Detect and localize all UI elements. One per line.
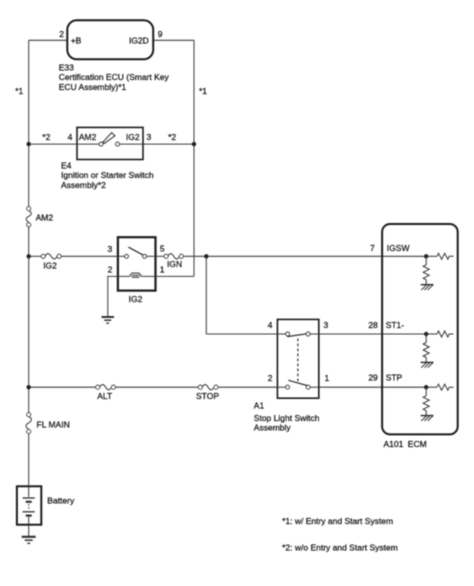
svg-text:*2: *2 [42,132,50,142]
svg-text:Certification ECU (Smart Key: Certification ECU (Smart Key [59,72,170,82]
svg-text:IG2: IG2 [43,261,57,271]
svg-text:STP: STP [386,373,403,383]
svg-text:AM2: AM2 [79,132,97,142]
svg-text:E4: E4 [61,160,72,170]
svg-text:IG2: IG2 [126,132,140,142]
svg-text:IG2: IG2 [129,294,143,304]
svg-text:IGN: IGN [167,259,182,269]
svg-text:FL MAIN: FL MAIN [37,419,70,429]
svg-text:2: 2 [59,29,64,39]
svg-text:*1: *1 [199,86,207,96]
svg-text:ALT: ALT [97,391,112,401]
svg-text:*1: *1 [15,86,23,96]
svg-text:2: 2 [268,373,273,383]
svg-text:+B: +B [71,35,82,45]
svg-text:29: 29 [368,373,378,383]
svg-text:3: 3 [147,132,152,142]
svg-text:1: 1 [160,265,165,275]
svg-text:IGSW: IGSW [387,243,410,253]
svg-text:ECM: ECM [408,439,427,449]
svg-text:Ignition or Starter Switch: Ignition or Starter Switch [61,170,154,180]
svg-text:E33: E33 [59,62,74,72]
svg-text:STOP: STOP [196,391,219,401]
svg-text:*1: w/ Entry and Start System: *1: w/ Entry and Start System [282,516,393,526]
svg-text:Stop Light Switch: Stop Light Switch [254,413,320,423]
svg-text:*2: *2 [168,132,176,142]
svg-text:4: 4 [68,132,73,142]
svg-text:4: 4 [268,320,273,330]
svg-text:1: 1 [325,373,330,383]
svg-text:2: 2 [108,265,113,275]
svg-text:ECU Assembly)*1: ECU Assembly)*1 [59,82,127,92]
svg-text:9: 9 [158,29,163,39]
svg-text:28: 28 [368,320,378,330]
svg-text:*2: w/o Entry and Start System: *2: w/o Entry and Start System [282,543,398,553]
svg-text:3: 3 [324,320,329,330]
svg-text:Assembly*2: Assembly*2 [61,180,106,190]
svg-text:7: 7 [370,243,375,253]
svg-text:Battery: Battery [47,496,75,506]
svg-text:AM2: AM2 [36,212,54,222]
svg-text:Assembly: Assembly [254,423,292,433]
svg-text:3: 3 [107,244,112,254]
svg-text:A101: A101 [384,439,404,449]
svg-text:5: 5 [160,244,165,254]
svg-text:A1: A1 [254,400,265,410]
svg-text:IG2D: IG2D [129,35,149,45]
svg-text:ST1-: ST1- [386,320,405,330]
